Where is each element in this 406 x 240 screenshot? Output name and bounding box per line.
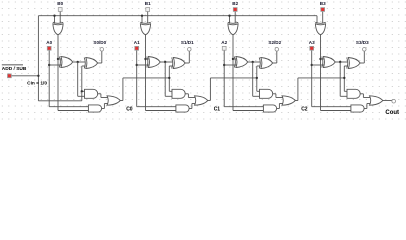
input port B1 [146,8,150,12]
node Cin tee stage 0 [81,90,83,92]
wire C1 carry to next stage [208,100,211,102]
input port A0 [47,46,51,50]
wire P3 drop to carry AND [339,62,341,96]
node D0 tee [57,58,59,60]
wire ADD/SUB port lead [11,75,38,77]
wire D3 into XOR top input [321,58,325,60]
wire SUB left rail [37,16,39,101]
svg-text:B0: B0 [57,1,63,6]
xor gate U2A (B1 xor SUB) [140,24,150,35]
wire carry into sum XOR bottom input stage 1 [169,65,173,67]
svg-text:C1: C1 [214,106,221,112]
svg-text:S1/D1: S1/D1 [181,40,194,45]
wire AND2 output jog stage 3 [364,108,367,110]
node P3 tee [339,61,341,63]
wire SUB stub stage 0 [54,16,56,24]
wire SUB stub stage 3 [316,16,318,24]
wire sum XOR output stage 2 [273,62,277,64]
wire B0 drop [59,11,61,23]
wire carry into carry AND top input stage 1 [169,90,173,92]
node C1 tee stage 2 [256,77,258,79]
wire D0 into XOR top input [58,58,62,60]
wire B3 drop [322,11,324,23]
xor gate U3A (B2 xor SUB) [228,24,238,35]
node D2 tee [232,58,234,60]
wire C1 riser stage 2 [256,66,258,91]
xor gate U1A (B0 xor SUB) [53,24,63,35]
and gate U3E carry [263,105,276,112]
wire A1 into AND top input [137,106,177,108]
wire Cin riser stage 0 [81,66,83,91]
input port B2 [233,8,237,12]
wire P1 (A xor D) [160,61,173,63]
wire P3 into carry AND bottom input [340,95,348,97]
or gate U3F carry [282,96,295,105]
wire P1 into carry AND bottom input [165,95,173,97]
svg-text:S2/D2: S2/D2 [268,40,281,45]
node P0 tee [77,61,79,63]
node SUB rail junction stage 1 [141,15,143,17]
wire carry AND1 output jog stage 1 [186,93,189,95]
svg-text:S3/D3: S3/D3 [356,40,369,45]
wire carry into sum XOR bottom input stage 3 [344,65,348,67]
svg-text:B3: B3 [320,1,326,6]
wire C0 carry to next stage [120,100,123,102]
wire D1 drop [145,35,147,111]
svg-text:Cout: Cout [385,110,399,116]
wire AND2 output jog stage 1 [189,108,192,110]
wire AND2 output jog stage 0 [102,108,105,110]
wire Cout lead [383,100,392,102]
wire D1 into AND bottom input [146,110,178,112]
wire P2 drop to carry AND [252,62,254,96]
svg-text:B1: B1 [145,1,151,6]
and gate U1E carry [88,105,101,112]
wire carry AND1 output jog stage 2 [273,93,276,95]
wire A2 drop [223,50,225,106]
wire P1 drop to carry AND [164,62,166,96]
node P2 tee [252,61,254,63]
wire A1 into XOR bottom input [137,64,149,66]
wire Cin horizontal into stage 0 [38,100,81,102]
wire A3 drop [311,50,313,106]
xor gate U3C sum [261,58,273,69]
xor gate U4A (B3 xor SUB) [315,24,325,35]
wire S2 riser to output port [276,51,278,63]
and gate U4D carry [347,89,360,98]
wire A1 drop [136,50,138,106]
label ADD/SUB overline [2,64,23,66]
svg-text:Cin = 1/0: Cin = 1/0 [27,81,47,87]
wire D1 into XOR top input [146,58,150,60]
wire S1 riser to output port [188,51,190,63]
wire P3 (A xor D) [335,61,348,63]
input port ADD/SUB [8,74,12,78]
node C2 tee stage 3 [343,77,345,79]
wire S0 riser to output port [101,51,103,63]
output port S2/D2 [275,48,279,52]
xor gate U3B (A2 xor D2) [236,57,248,68]
input port A2 [222,46,226,50]
wire D0 drop [57,35,59,111]
wire sum XOR output stage 0 [98,62,102,64]
wire SUB top rail [38,15,317,17]
wire P2 (A xor D) [248,61,261,63]
output port S1/D1 [188,48,192,52]
wire C2 carry to next stage [295,100,298,102]
wire P0 drop to carry AND [77,62,79,96]
or gate U4F carry [370,96,383,105]
svg-text:S0/D0: S0/D0 [93,40,106,45]
and gate U1D carry [85,89,98,98]
wire A3 into XOR bottom input [312,64,324,66]
node ADD/SUB rail junction [37,75,39,77]
xor gate U2B (A1 xor D1) [148,57,160,68]
wire sum XOR output stage 3 [360,62,364,64]
wire D0 into AND bottom input [58,110,90,112]
output port S3/D3 [363,48,367,52]
wire P0 into carry AND bottom input [78,95,86,97]
and gate U3D carry [260,89,273,98]
wire SUB stub stage 1 [141,16,143,24]
wire A2 into AND top input [224,106,264,108]
wire SUB stub stage 2 [229,16,231,24]
input port A1 [135,46,139,50]
xor gate U4C sum [348,58,360,69]
wire carry into sum XOR bottom input stage 0 [82,65,86,67]
wire Cin riser bottom stage 0 [81,91,83,101]
svg-text:A3: A3 [309,40,315,45]
input port B0 [58,8,62,12]
xor gate U2C sum [173,58,185,69]
wire D3 drop [320,35,322,111]
and gate U2E carry [176,105,189,112]
wire C2 riser stage 3 [343,66,345,91]
or gate U2F carry [195,96,208,105]
wire C0 riser stage 1 [168,66,170,91]
svg-text:A1: A1 [134,40,140,45]
and gate U4E carry [351,105,364,112]
wire S3 riser to output port [363,51,365,63]
xor gate U1C sum [86,58,98,69]
svg-text:A0: A0 [46,40,52,45]
and gate U2D carry [172,89,185,98]
wire D2 into AND bottom input [233,110,265,112]
input port A3 [310,46,314,50]
output port Cout [392,99,396,103]
wire D3 into AND bottom input [321,110,353,112]
node A2 tee [223,64,225,66]
input port B3 [321,8,325,12]
wire A0 into XOR bottom input [49,64,61,66]
svg-text:A2: A2 [221,40,227,45]
svg-text:ADD / SUB: ADD / SUB [2,66,27,72]
node SUB rail junction stage 2 [228,15,230,17]
wire carry into sum XOR bottom input stage 2 [257,65,261,67]
node A0 tee [48,64,50,66]
wire A2 into XOR bottom input [224,64,236,66]
node A1 tee [136,64,138,66]
xor gate U4B (A3 xor D3) [323,57,335,68]
wire sum XOR output stage 1 [185,62,189,64]
wire A3 into AND top input [312,106,352,108]
wire A0 drop [48,50,50,106]
wire carry into carry AND top input stage 0 [82,90,86,92]
wire P2 into carry AND bottom input [253,95,261,97]
node C0 tee stage 1 [168,77,170,79]
wire carry into carry AND top input stage 3 [344,90,348,92]
svg-text:C2: C2 [301,106,308,112]
wire carry AND1 output jog stage 3 [361,93,364,95]
wire B1 drop [147,11,149,23]
wire carry into carry AND top input stage 2 [257,90,261,92]
wire D2 into XOR top input [233,58,237,60]
node SUB rail junction stage 0 [53,15,55,17]
svg-text:C0: C0 [126,106,133,112]
svg-text:B2: B2 [232,1,238,6]
node P1 tee [164,61,166,63]
wire P0 (A xor D) [73,61,86,63]
or gate U1F carry [107,96,120,105]
output port S0/D0 [100,48,104,52]
xor gate U1B (A0 xor D0) [61,57,73,68]
wire A0 into AND top input [49,106,89,108]
node A3 tee [311,64,313,66]
wire AND2 output jog stage 2 [277,108,280,110]
wire carry AND1 output jog stage 0 [98,93,101,95]
node D1 tee [144,58,146,60]
node D3 tee [319,58,321,60]
wire D2 drop [232,35,234,111]
wire B2 drop [234,11,236,23]
